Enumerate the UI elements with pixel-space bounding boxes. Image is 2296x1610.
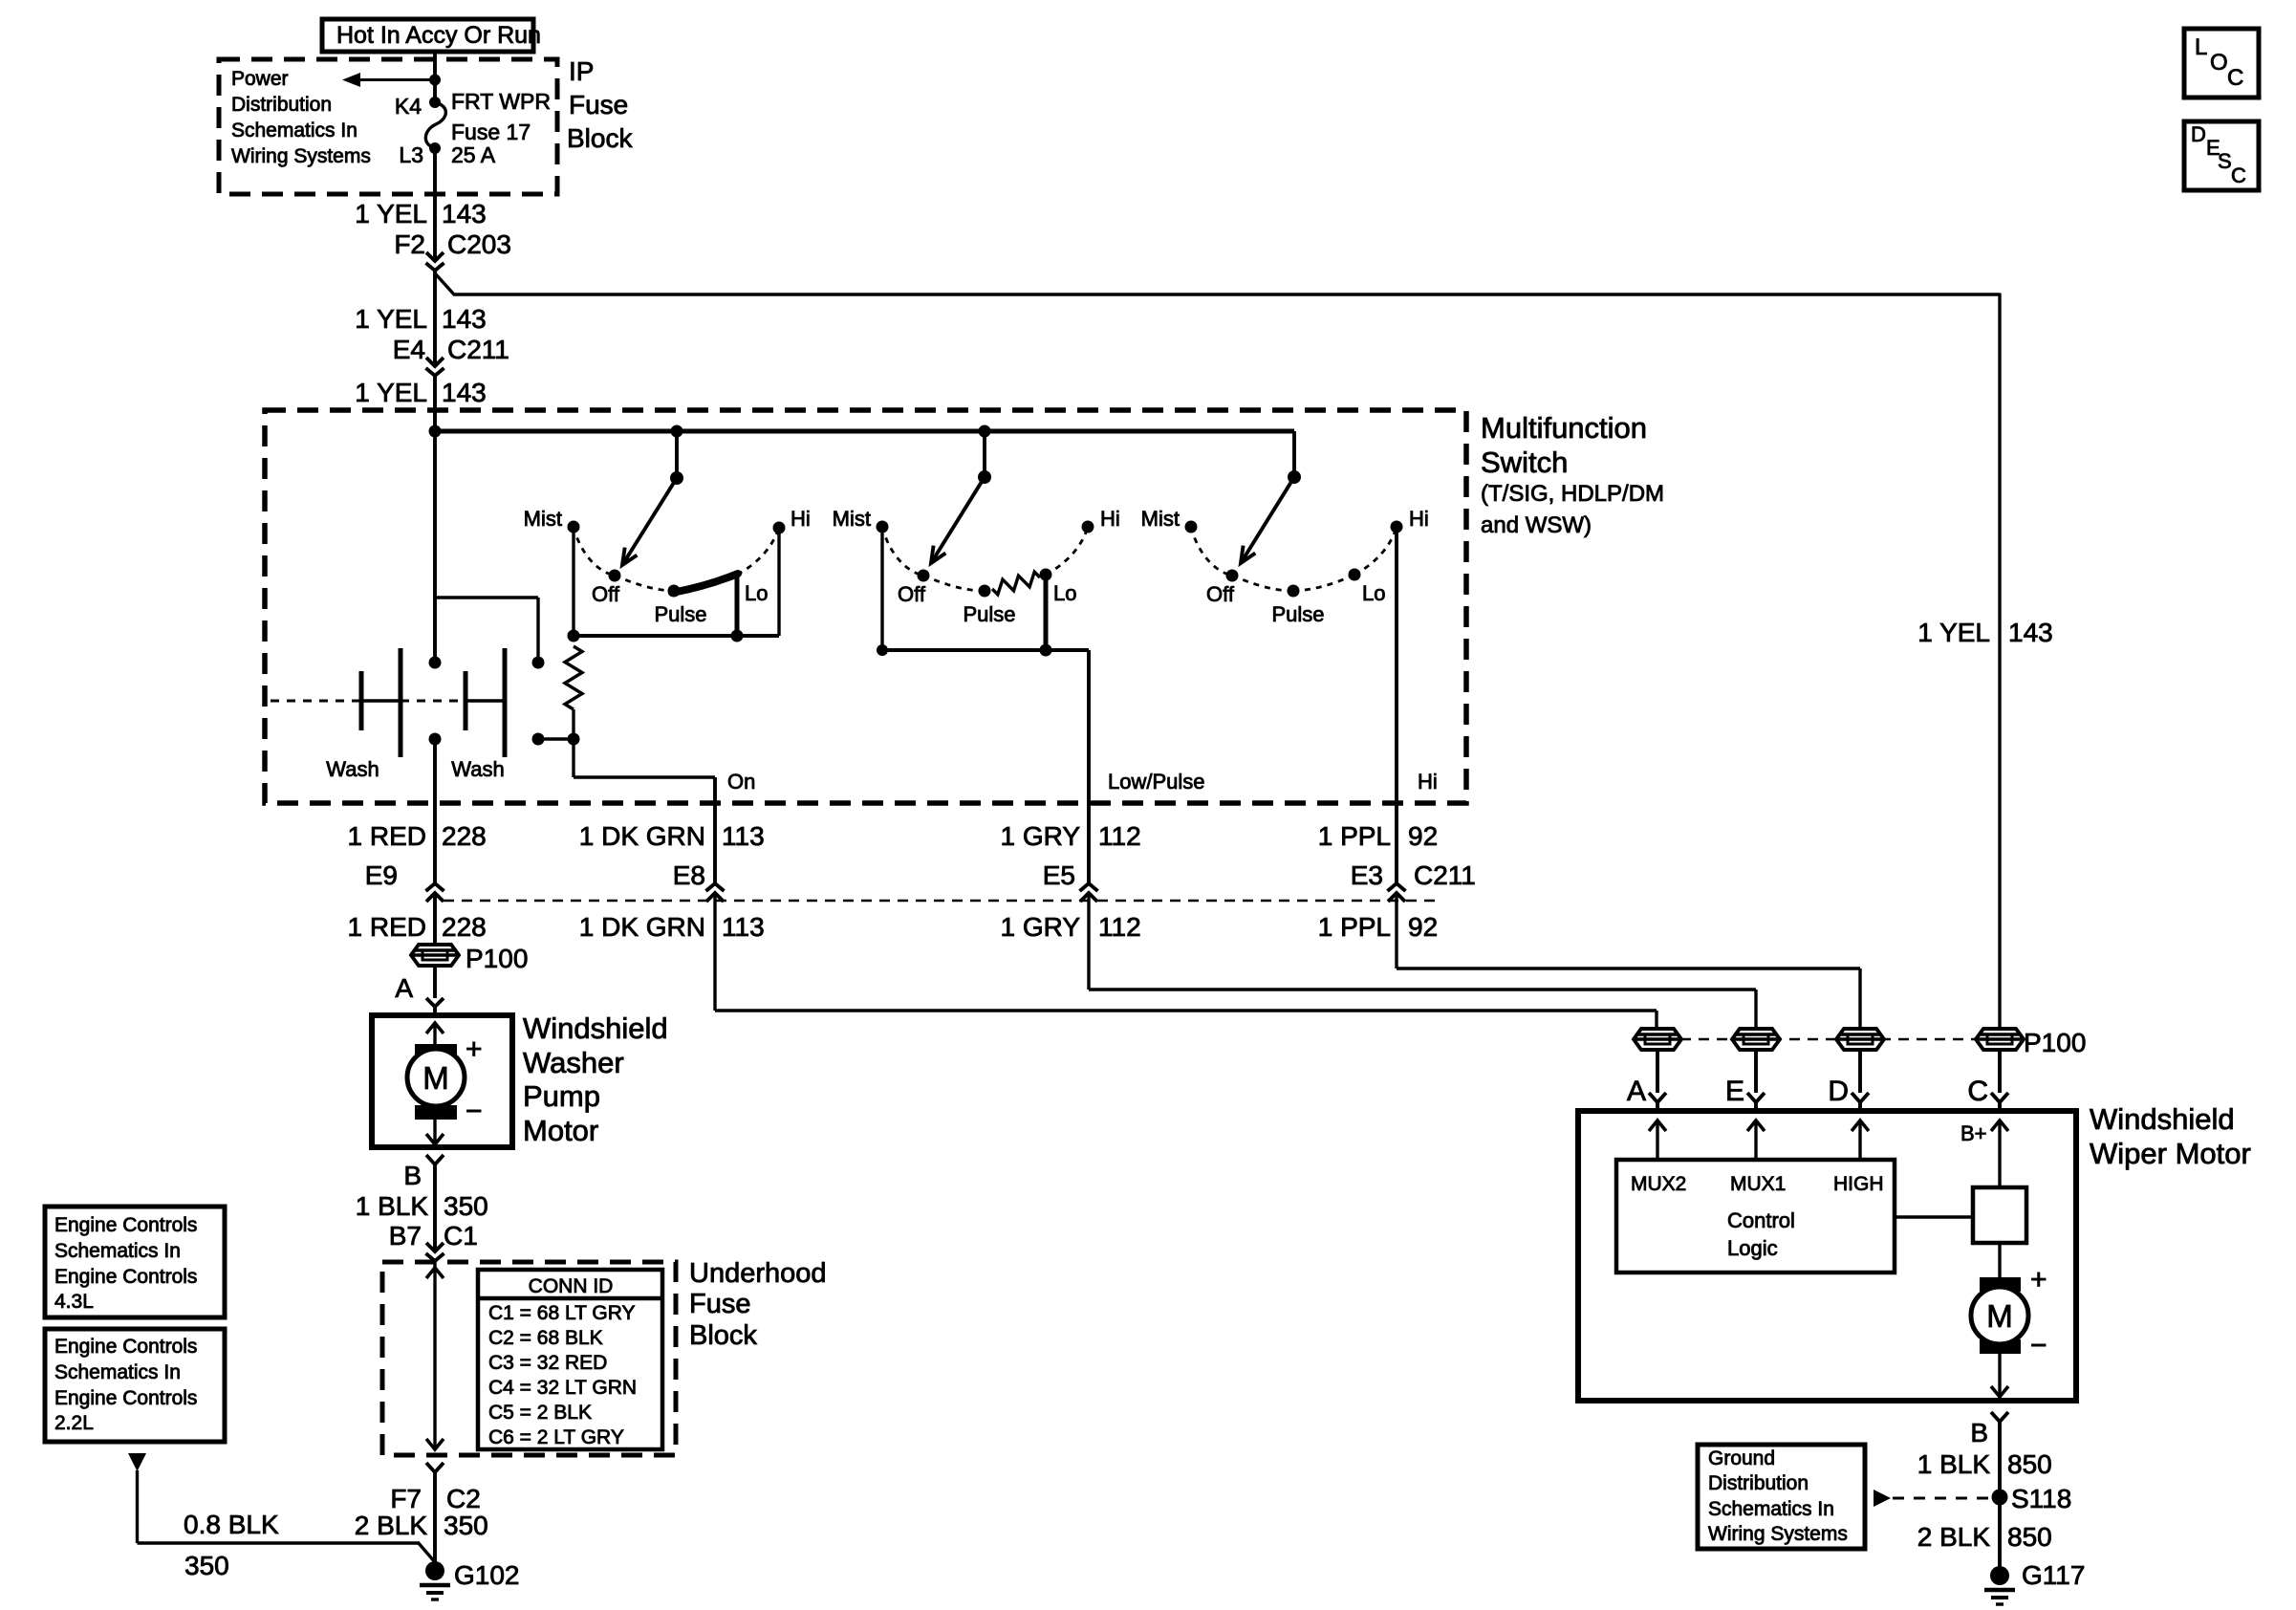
svg-text:92: 92 — [1408, 821, 1438, 851]
svg-text:1 PPL: 1 PPL — [1318, 912, 1391, 942]
svg-text:+: + — [466, 1033, 483, 1065]
svg-text:0.8 BLK: 0.8 BLK — [184, 1510, 279, 1539]
svg-text:FRT WPR: FRT WPR — [451, 89, 551, 114]
multifunction switch label — [1481, 411, 1664, 538]
contact bar Lo (switch 2) — [1044, 575, 1049, 650]
svg-text:Pulse: Pulse — [1271, 602, 1324, 626]
svg-text:Motor: Motor — [523, 1114, 598, 1147]
svg-text:Windshield: Windshield — [523, 1012, 668, 1045]
wire: washer pump motor to pin B — [426, 1120, 444, 1144]
switch 1 Pulse-Lo contact strip (thick arc) — [672, 574, 738, 593]
engine controls 4.3L reference box — [45, 1207, 225, 1317]
svg-text:Distribution: Distribution — [231, 94, 332, 116]
wire label 1 GRY 112 (below C211) — [1000, 912, 1140, 942]
svg-text:D: D — [1828, 1076, 1849, 1107]
pin label E9 — [365, 860, 398, 890]
contact Lo (switch 1) — [745, 581, 768, 605]
svg-text:M: M — [422, 1060, 449, 1096]
connector C211 dashed separation line — [444, 900, 1436, 903]
wash switch 2 plunger — [466, 648, 505, 757]
wire: ground path through underhood fuse block — [426, 1261, 444, 1449]
contact Mist (switch 3) — [1141, 507, 1198, 533]
connector C2 chevron below underhood fuse block — [426, 1463, 444, 1565]
svg-text:1 DK GRN: 1 DK GRN — [579, 821, 705, 851]
arrow into MUX1 — [1747, 1120, 1765, 1161]
svg-text:C3 = 32 RED: C3 = 32 RED — [488, 1352, 607, 1374]
wire: 0.8 BLK 350 ground run — [138, 1542, 436, 1562]
connector C211 in-line symbol — [426, 358, 444, 376]
svg-text:E4: E4 — [393, 335, 425, 364]
svg-text:Engine Controls: Engine Controls — [54, 1387, 197, 1409]
connector chevron into washer pump — [426, 998, 444, 1017]
wire: bus corner drop to switch 3 pivot — [1292, 431, 1296, 475]
svg-text:1 GRY: 1 GRY — [1000, 821, 1080, 851]
svg-text:IP: IP — [569, 56, 594, 86]
svg-text:C1: C1 — [444, 1221, 478, 1251]
svg-text:C2 = 68 BLK: C2 = 68 BLK — [488, 1327, 603, 1349]
wash switch 1 plunger — [361, 648, 401, 757]
wire: park switch to wiper motor — [1998, 1243, 2001, 1279]
wire: bus drop to switch 2 pivot — [983, 431, 986, 475]
svg-text:Lo: Lo — [1053, 581, 1076, 605]
switch 3 wiper arm — [1241, 477, 1294, 563]
arrow from engine controls reference — [128, 1453, 146, 1543]
svg-text:Power: Power — [231, 68, 289, 90]
node: switch 2 bus at Lo — [1040, 644, 1052, 657]
wire: C203 to C211 segment — [433, 271, 437, 365]
svg-text:Schematics In: Schematics In — [231, 120, 357, 141]
contact Mist (switch 2) — [833, 507, 889, 533]
svg-text:Lo: Lo — [745, 581, 768, 605]
wire: E9 to P100 grommet — [433, 893, 437, 945]
svg-text:CONN ID: CONN ID — [529, 1275, 614, 1297]
IP Fuse Block dashed box — [219, 59, 557, 194]
svg-text:4.3L: 4.3L — [54, 1291, 94, 1313]
wire: resistor to junction — [572, 709, 574, 739]
wire: PPL run to wiper motor D — [1397, 893, 1860, 1031]
wire label 1 YEL 143 (above C203) — [355, 199, 487, 228]
svg-text:C211: C211 — [1414, 860, 1476, 890]
svg-text:228: 228 — [442, 821, 487, 851]
wire: branch to windshield wiper motor B+ (1 YEL 143 right run) — [436, 274, 2000, 1031]
svg-text:C: C — [2231, 163, 2246, 187]
wire: switch 1 common bus — [574, 634, 779, 638]
windshield wiper motor label — [2090, 1102, 2251, 1170]
node: resistor foot junction — [568, 733, 580, 746]
polarity - (wiper motor) — [2030, 1330, 2047, 1361]
label Low/Pulse — [1108, 770, 1205, 794]
svg-text:K4: K4 — [395, 94, 422, 119]
svg-text:112: 112 — [1098, 821, 1141, 851]
svg-text:Block: Block — [567, 123, 633, 153]
LOC index box — [2184, 29, 2259, 98]
contact Mist (switch 1) — [524, 507, 580, 533]
svg-text:On: On — [727, 770, 755, 794]
svg-text:E3: E3 — [1351, 860, 1383, 890]
wire label 1 BLK 350 — [356, 1191, 488, 1221]
svg-text:Pulse: Pulse — [963, 602, 1015, 626]
resistor: pulse delay (vertical) — [565, 646, 582, 709]
wire label 1 BLK 850 — [1917, 1449, 2052, 1479]
washer pump motor M1 — [407, 1044, 465, 1120]
control logic box U1 — [1616, 1160, 1895, 1273]
switch 2 wiper arm — [931, 477, 985, 563]
svg-text:Hi: Hi — [1100, 507, 1120, 531]
connector chevron below wiper motor — [1991, 1412, 2008, 1570]
pin label C (wiper motor) — [1967, 1076, 1988, 1107]
svg-text:Schematics In: Schematics In — [1708, 1498, 1834, 1520]
arrow into washer pump — [426, 1023, 444, 1046]
svg-text:−: − — [466, 1096, 483, 1127]
IP Fuse Block label — [567, 56, 633, 153]
terminal L3 of IP fuse block — [399, 142, 441, 167]
wire label 1 YEL 143 (into multifunction switch) — [355, 378, 487, 407]
svg-text:B7: B7 — [389, 1221, 422, 1251]
svg-text:(T/SIG, HDLP/DM: (T/SIG, HDLP/DM — [1481, 481, 1664, 507]
engine controls 2.2L reference box — [45, 1329, 225, 1442]
wire/chevron into wiper motor pin C — [1991, 1050, 2008, 1111]
svg-text:1 PPL: 1 PPL — [1318, 821, 1391, 851]
grommet P100 terminal A — [1634, 1029, 1681, 1050]
wire: wiper motor to pin B — [1991, 1354, 2008, 1397]
wire: Low/Pulse output down to E5 — [1087, 650, 1091, 883]
svg-text:Schematics In: Schematics In — [54, 1361, 181, 1383]
contact Pulse (switch 2) — [963, 585, 1015, 627]
wire label 0.8 BLK / 350 — [184, 1510, 279, 1580]
svg-text:Washer: Washer — [523, 1046, 624, 1079]
node: switch 1 bus left — [568, 630, 580, 642]
wire label 1 GRY 112 (above C211) — [1000, 821, 1140, 851]
contact Off (switch 3) — [1206, 570, 1238, 607]
pin label D (wiper motor) — [1828, 1076, 1849, 1107]
wire/chevron into wiper motor pin D — [1852, 1050, 1869, 1111]
wire: switch feed bus — [435, 429, 1294, 434]
wire: P100 to washer pump pin A — [433, 966, 437, 998]
svg-text:Fuse 17: Fuse 17 — [451, 120, 531, 144]
svg-text:C1 = 68 LT GRY: C1 = 68 LT GRY — [488, 1302, 636, 1324]
wire label 1 PPL 92 (above C211) — [1318, 821, 1438, 851]
svg-text:Wash: Wash — [326, 757, 379, 781]
node: switch 1 bus at Lo — [731, 630, 744, 642]
wire: Mist contact down (switch 2) — [880, 527, 883, 650]
grommet P100 (washer pump feed) — [411, 944, 528, 973]
arrow from ground distribution reference — [1874, 1490, 1991, 1507]
svg-text:Wiring Systems: Wiring Systems — [1708, 1523, 1848, 1545]
connector C211 terminal E3 — [1388, 883, 1406, 902]
switch 3 position arc (dashed) — [1191, 527, 1397, 591]
svg-text:2 BLK: 2 BLK — [355, 1511, 428, 1540]
svg-text:C: C — [2227, 65, 2243, 91]
svg-text:E9: E9 — [365, 860, 398, 890]
svg-text:113: 113 — [722, 821, 765, 851]
svg-text:Off: Off — [592, 582, 620, 606]
svg-text:P100: P100 — [466, 944, 528, 973]
svg-text:A: A — [395, 973, 413, 1003]
contact Pulse (switch 1) — [654, 585, 706, 627]
svg-text:1 YEL: 1 YEL — [355, 199, 427, 228]
svg-text:Schematics In: Schematics In — [54, 1240, 181, 1262]
svg-text:C211: C211 — [447, 335, 509, 364]
ground G102 — [420, 1560, 520, 1599]
node: wash switch 1 lower contact — [429, 733, 442, 746]
underhood fuse block label — [689, 1258, 827, 1351]
windshield washer pump motor box — [372, 1015, 512, 1147]
pin label E4 / connector C211 — [393, 335, 509, 364]
svg-text:+: + — [2030, 1264, 2047, 1295]
svg-text:D: D — [2191, 122, 2206, 146]
pin label F2 / connector C203 — [394, 229, 511, 259]
wire label 1 YEL 143 (above C211) — [355, 304, 487, 334]
wire: switch 2 common bus — [882, 648, 1089, 652]
pin label E5 — [1043, 860, 1075, 890]
connector C211 terminal E5 — [1080, 883, 1098, 902]
wire: control logic to park switch — [1895, 1215, 1975, 1218]
wire/chevron into wiper motor pin A — [1649, 1050, 1666, 1111]
pin label E3 / connector C211 name — [1351, 860, 1476, 890]
splice S118 — [1992, 1484, 2072, 1513]
svg-text:L3: L3 — [399, 142, 423, 167]
svg-text:B: B — [1970, 1418, 1988, 1447]
terminal K4 of IP fuse block — [395, 94, 441, 119]
svg-text:Ground: Ground — [1708, 1447, 1775, 1469]
switch 1 wiper arm — [622, 478, 677, 565]
svg-text:143: 143 — [442, 199, 487, 228]
contact Off (switch 1) — [592, 570, 620, 607]
svg-text:C6 = 2 LT GRY: C6 = 2 LT GRY — [488, 1426, 624, 1448]
svg-text:350: 350 — [184, 1551, 229, 1580]
arrow into B+ — [1991, 1120, 2008, 1189]
node: switch 1 pivot — [670, 471, 683, 485]
wire: C211 down into multifunction switch — [433, 376, 437, 433]
svg-text:S: S — [2218, 149, 2232, 173]
svg-text:HIGH: HIGH — [1833, 1173, 1884, 1195]
svg-text:25 A: 25 A — [451, 142, 496, 167]
node: wash switch 2 lower contact — [532, 733, 545, 746]
contact Hi (switch 3) — [1391, 507, 1429, 533]
park switch block — [1973, 1187, 2026, 1243]
arrow into MUX2 — [1649, 1120, 1666, 1161]
svg-text:F2: F2 — [394, 229, 425, 259]
svg-text:1 GRY: 1 GRY — [1000, 912, 1080, 942]
svg-text:L: L — [2195, 34, 2207, 60]
svg-text:C203: C203 — [447, 229, 511, 259]
svg-text:C: C — [1967, 1076, 1988, 1107]
svg-text:G117: G117 — [2022, 1560, 2085, 1590]
svg-text:P100: P100 — [2024, 1028, 2086, 1057]
pin label F7 / connector C2 — [390, 1484, 480, 1513]
svg-text:228: 228 — [442, 912, 487, 942]
wire: fuse output down to C203 — [433, 148, 437, 260]
label Wash (switch 2) — [451, 757, 504, 781]
svg-text:A: A — [1627, 1076, 1646, 1107]
wire: Hi output down to E3 — [1395, 529, 1398, 883]
contact bar Lo (switch 1) — [735, 575, 740, 636]
CONN ID table — [478, 1270, 662, 1449]
svg-text:Distribution: Distribution — [1708, 1472, 1809, 1494]
contact Lo (switch 3) — [1349, 569, 1386, 606]
svg-text:Low/Pulse: Low/Pulse — [1108, 770, 1205, 794]
svg-text:850: 850 — [2007, 1449, 2052, 1479]
node: switch 2 pivot — [978, 470, 991, 484]
pin label E8 — [673, 860, 705, 890]
label box: Hot In Accy Or Run — [322, 19, 541, 52]
svg-text:Engine Controls: Engine Controls — [54, 1336, 197, 1358]
svg-text:143: 143 — [442, 304, 487, 334]
svg-text:1 DK GRN: 1 DK GRN — [579, 912, 705, 942]
windshield washer pump motor label — [523, 1012, 668, 1147]
wire/chevron into wiper motor pin E — [1747, 1050, 1765, 1111]
pin label A (washer pump) — [395, 973, 413, 1003]
svg-text:F7: F7 — [390, 1484, 422, 1513]
wire: DK GRN run to wiper motor A — [715, 893, 1657, 1031]
svg-text:Fuse: Fuse — [569, 90, 628, 120]
svg-text:−: − — [2030, 1330, 2047, 1361]
wire label 1 RED 228 (above C211) — [348, 821, 487, 851]
svg-text:1 YEL: 1 YEL — [355, 378, 427, 407]
wire: wash output down to E9 — [433, 739, 437, 883]
connector C211 terminal E9 — [426, 883, 444, 902]
contact Lo (switch 2) — [1040, 569, 1077, 606]
svg-text:O: O — [2210, 50, 2228, 76]
svg-text:92: 92 — [1408, 912, 1438, 942]
pin label A (wiper motor) — [1627, 1076, 1646, 1107]
svg-text:Hi: Hi — [1418, 770, 1438, 794]
contact Hi (switch 1) — [773, 507, 811, 534]
svg-text:1 BLK: 1 BLK — [356, 1191, 429, 1221]
svg-text:G102: G102 — [454, 1560, 520, 1590]
svg-text:350: 350 — [444, 1191, 488, 1221]
svg-text:C2: C2 — [446, 1484, 481, 1513]
svg-text:Off: Off — [898, 582, 926, 606]
underhood fuse block dashed box — [382, 1262, 676, 1455]
svg-text:B: B — [403, 1161, 422, 1190]
svg-text:MUX2: MUX2 — [1631, 1173, 1686, 1195]
polarity - (washer pump) — [466, 1096, 483, 1127]
svg-text:Hi: Hi — [791, 507, 811, 531]
svg-text:and WSW): and WSW) — [1481, 512, 1592, 538]
pin label B (washer pump) — [403, 1161, 422, 1190]
svg-text:Engine Controls: Engine Controls — [54, 1214, 197, 1236]
svg-text:2 BLK: 2 BLK — [1917, 1522, 1991, 1552]
svg-text:2.2L: 2.2L — [54, 1412, 94, 1434]
svg-text:1 RED: 1 RED — [348, 912, 426, 942]
svg-text:Multifunction: Multifunction — [1481, 411, 1647, 445]
label Wash (switch 1) — [326, 757, 379, 781]
svg-text:E8: E8 — [673, 860, 705, 890]
polarity + (washer pump) — [466, 1033, 483, 1065]
windshield wiper motor box — [1578, 1111, 2076, 1401]
svg-text:E5: E5 — [1043, 860, 1075, 890]
wire: Hi contact down (switch 1) — [777, 528, 780, 636]
svg-text:Off: Off — [1206, 582, 1235, 606]
wire: bus down to wash contact — [433, 431, 437, 660]
svg-text:Mist: Mist — [1141, 507, 1180, 531]
svg-text:Lo: Lo — [1362, 581, 1385, 605]
svg-text:B+: B+ — [1960, 1121, 1987, 1145]
svg-text:Switch: Switch — [1481, 446, 1568, 479]
svg-text:M: M — [1986, 1298, 2013, 1334]
wire label 2 BLK 850 — [1917, 1522, 2052, 1552]
label Hi (output) — [1418, 770, 1438, 794]
label On — [727, 770, 755, 794]
wire label 1 YEL 143 (right feed) — [1917, 618, 2053, 647]
wire: Mist contact down (switch 1) — [572, 527, 574, 636]
svg-text:1 BLK: 1 BLK — [1917, 1449, 1991, 1479]
ground distribution reference box — [1698, 1445, 1865, 1549]
DESC index box — [2184, 121, 2259, 190]
contact Off (switch 2) — [898, 570, 929, 607]
svg-text:E: E — [1725, 1076, 1744, 1107]
contact Hi (switch 2) — [1082, 507, 1120, 533]
wire label 1 DK GRN 113 (above C211) — [579, 821, 765, 851]
svg-text:Wiring Systems: Wiring Systems — [231, 145, 371, 167]
node: wash switch 1 upper contact — [429, 657, 442, 669]
wire: On output routing — [574, 739, 715, 883]
switch 1 position arc (dashed) — [574, 527, 779, 591]
reference note: Power Distribution Schematics In Wiring Systems — [231, 68, 371, 167]
svg-text:Mist: Mist — [524, 507, 562, 531]
wire: Hot In Accy feed into fuse K4 — [433, 50, 437, 99]
grommet P100 dashed line — [1680, 1038, 1979, 1041]
label B+ — [1960, 1121, 1987, 1145]
ground G117 — [1984, 1560, 2085, 1604]
svg-text:C5 = 2 BLK: C5 = 2 BLK — [488, 1402, 592, 1424]
wire: bus drop to switch 1 pivot — [675, 431, 679, 477]
arrow into HIGH — [1852, 1120, 1869, 1161]
fuse label: FRT WPR Fuse 17 25 A — [451, 89, 551, 167]
grommet P100 terminal C — [1976, 1028, 2086, 1057]
wire: wash 2 lower contact to resistor foot — [538, 737, 574, 740]
connector C203 in-line symbol — [426, 252, 444, 271]
node: bus junction switch 2 — [979, 425, 991, 438]
wire: branch to second wash contact — [435, 598, 538, 660]
wire label 1 RED 228 (below C211) — [348, 912, 487, 942]
fuse F17 FRT WPR 25A symbol — [425, 102, 445, 148]
node: bus junction at wash branch — [429, 425, 442, 438]
node: switch 2 bus left — [877, 644, 888, 656]
node: switch 3 pivot — [1288, 470, 1301, 484]
svg-text:Control: Control — [1727, 1208, 1795, 1232]
svg-text:850: 850 — [2007, 1522, 2052, 1552]
svg-text:Engine Controls: Engine Controls — [54, 1266, 197, 1288]
svg-text:350: 350 — [444, 1511, 488, 1540]
svg-text:1 YEL: 1 YEL — [355, 304, 427, 334]
pin label E (wiper motor) — [1725, 1076, 1744, 1107]
wire label 2 BLK 350 — [355, 1511, 488, 1540]
arrow to power distribution schematics — [342, 73, 435, 87]
svg-text:Logic: Logic — [1727, 1236, 1778, 1260]
polarity + (wiper motor) — [2030, 1264, 2047, 1295]
svg-text:Windshield: Windshield — [2090, 1102, 2235, 1136]
pin label B7 / connector C1 — [389, 1221, 478, 1251]
wire label 1 PPL 92 (below C211) — [1318, 912, 1438, 942]
pin label B (wiper motor) — [1970, 1418, 1988, 1447]
wire label 1 DK GRN 113 (below C211) — [579, 912, 765, 942]
svg-text:Wiper Motor: Wiper Motor — [2090, 1137, 2251, 1170]
multifunction switch dashed box — [265, 410, 1466, 803]
svg-text:112: 112 — [1098, 912, 1141, 942]
node: junction to power distribution arrow — [429, 75, 441, 86]
node: bus junction switch 1 — [671, 425, 683, 438]
wiper motor M2 — [1971, 1277, 2028, 1354]
svg-text:Underhood: Underhood — [689, 1258, 827, 1289]
svg-text:Mist: Mist — [833, 507, 871, 531]
svg-text:C4 = 32 LT GRN: C4 = 32 LT GRN — [488, 1377, 637, 1399]
svg-text:Hi: Hi — [1409, 507, 1429, 531]
grommet P100 terminal E — [1732, 1029, 1780, 1050]
svg-text:1 YEL: 1 YEL — [1917, 618, 1990, 647]
contact Pulse (switch 3) — [1271, 585, 1324, 627]
